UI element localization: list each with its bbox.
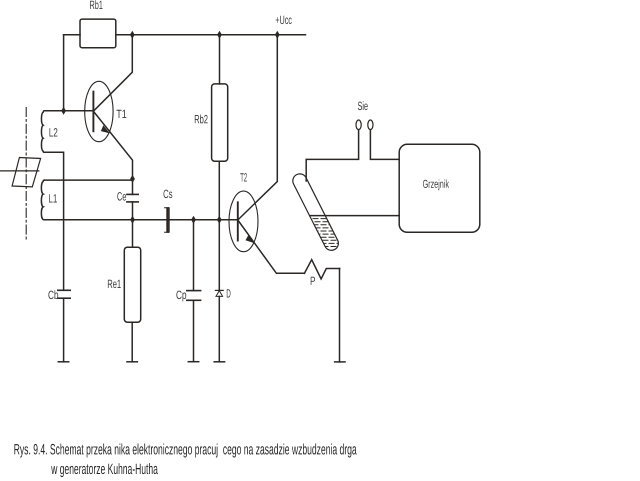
probe hatching: [305, 219, 345, 247]
capacitor Cp: [187, 290, 201, 292]
label D: [227, 289, 231, 297]
capacitor Cb: [58, 289, 70, 291]
piezo transducer parallelogram: [12, 158, 40, 187]
label Re1: [108, 280, 121, 288]
label +Ucc: [276, 16, 292, 24]
label T2: [240, 173, 247, 181]
wire T1 emitter to node: [93, 111, 132, 179]
transistor T1: [85, 81, 113, 141]
axis dash-dot line: [25, 108, 27, 240]
wire L2 bottom to Cb branch: [44, 152, 63, 290]
inductor L1: [41, 180, 44, 220]
terminal tick D: [214, 361, 224, 363]
node rail-T2: [275, 31, 280, 39]
wire top rail +Ucc: [116, 34, 306, 36]
label Cb: [48, 290, 58, 299]
wire Cp branch: [193, 220, 195, 291]
label Rb2: [195, 115, 208, 124]
wire main horizontal: [44, 219, 238, 221]
resistor Rb2: [212, 84, 228, 161]
node emitter T1: [130, 175, 135, 183]
label Sie: [358, 101, 368, 110]
junction dots: [61, 31, 280, 224]
wire Rb2 top stub: [219, 35, 221, 84]
wire T1 base: [44, 110, 93, 112]
label Cp: [176, 291, 186, 302]
terminal tick Re1: [127, 361, 137, 363]
inductor L2: [41, 111, 44, 152]
node Ce main: [130, 216, 135, 224]
label Rb1: [90, 0, 102, 9]
terminal tick Cp: [188, 361, 198, 363]
label Ce: [117, 192, 126, 201]
wire T1 collector to rail: [93, 35, 132, 111]
terminal tick P: [335, 361, 345, 363]
label Grzejnik: [423, 180, 449, 191]
wire T2 collector to rail: [238, 35, 277, 220]
label L1: [49, 194, 57, 202]
wire Sie right to heater box: [370, 130, 399, 160]
capacitor Cs: [166, 209, 169, 232]
transistor T2: [229, 191, 258, 252]
terminal Sie right: [368, 120, 373, 130]
node Rb2 main: [217, 216, 222, 224]
caption line 2: [51, 463, 158, 477]
capacitor Ce: [132, 179, 134, 195]
node Cp main: [191, 216, 196, 224]
wire probe to heater box: [310, 215, 399, 217]
node rail-collector T1: [130, 31, 135, 39]
resistor Rb1: [80, 19, 116, 48]
diode D: [215, 289, 223, 291]
wire P branch down: [339, 269, 341, 362]
label P: [311, 277, 315, 285]
wire Rb2 bottom to diode: [218, 161, 220, 290]
label Cs: [164, 190, 173, 199]
node rail-Rb2: [217, 31, 222, 39]
wire Rb1 left stub: [64, 34, 80, 36]
probe body: [290, 171, 340, 252]
wire Re1 branch: [132, 220, 134, 247]
label T1: [117, 110, 127, 118]
terminal tick Cb: [58, 361, 68, 363]
label L2: [50, 128, 58, 136]
caption line 1: [14, 444, 356, 458]
wire left vertical Rb1 to base node: [63, 35, 65, 111]
switch P: [304, 260, 339, 279]
resistor Re1: [124, 247, 140, 322]
wire T2 emitter to P: [238, 220, 305, 273]
wire transducer lead: [0, 170, 39, 172]
node base T1: [61, 107, 66, 115]
wire Sie left to probe: [306, 130, 358, 181]
heater box Grzejnik: [399, 144, 480, 232]
wire L1 top to emitter node: [44, 179, 132, 181]
terminal Sie left: [356, 120, 361, 130]
